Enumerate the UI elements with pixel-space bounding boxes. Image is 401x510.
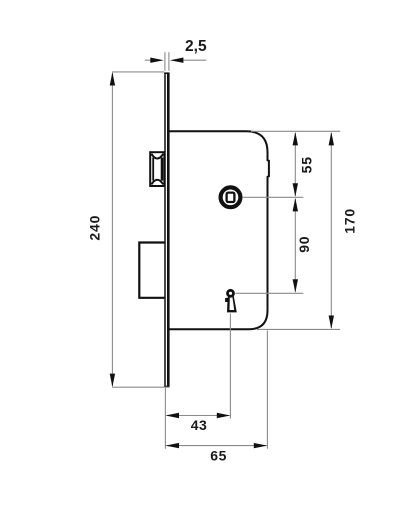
bottom extension lines	[165, 314, 267, 449]
follower square hole	[227, 193, 235, 202]
dimension 65	[167, 445, 267, 447]
follower U	[221, 187, 241, 207]
svg-text:55: 55	[299, 156, 315, 173]
dimension 90	[294, 199, 296, 292]
lock body	[170, 131, 269, 329]
keyhole	[225, 290, 237, 312]
dimension 170	[330, 133, 332, 328]
svg-text:90: 90	[296, 236, 312, 253]
dimension 55	[294, 133, 296, 196]
svg-text:43: 43	[191, 417, 208, 433]
svg-text:65: 65	[210, 447, 227, 463]
dimension 240	[112, 72, 169, 387]
extension lines right	[235, 131, 340, 329]
dimension 43	[167, 415, 230, 417]
svg-text:170: 170	[342, 208, 358, 234]
dimension 2,5	[145, 52, 207, 71]
svg-text:240: 240	[87, 215, 103, 241]
faceplate	[164, 73, 169, 388]
svg-text:2,5: 2,5	[185, 38, 207, 55]
deadbolt	[139, 243, 165, 298]
latch bolt	[150, 152, 164, 186]
